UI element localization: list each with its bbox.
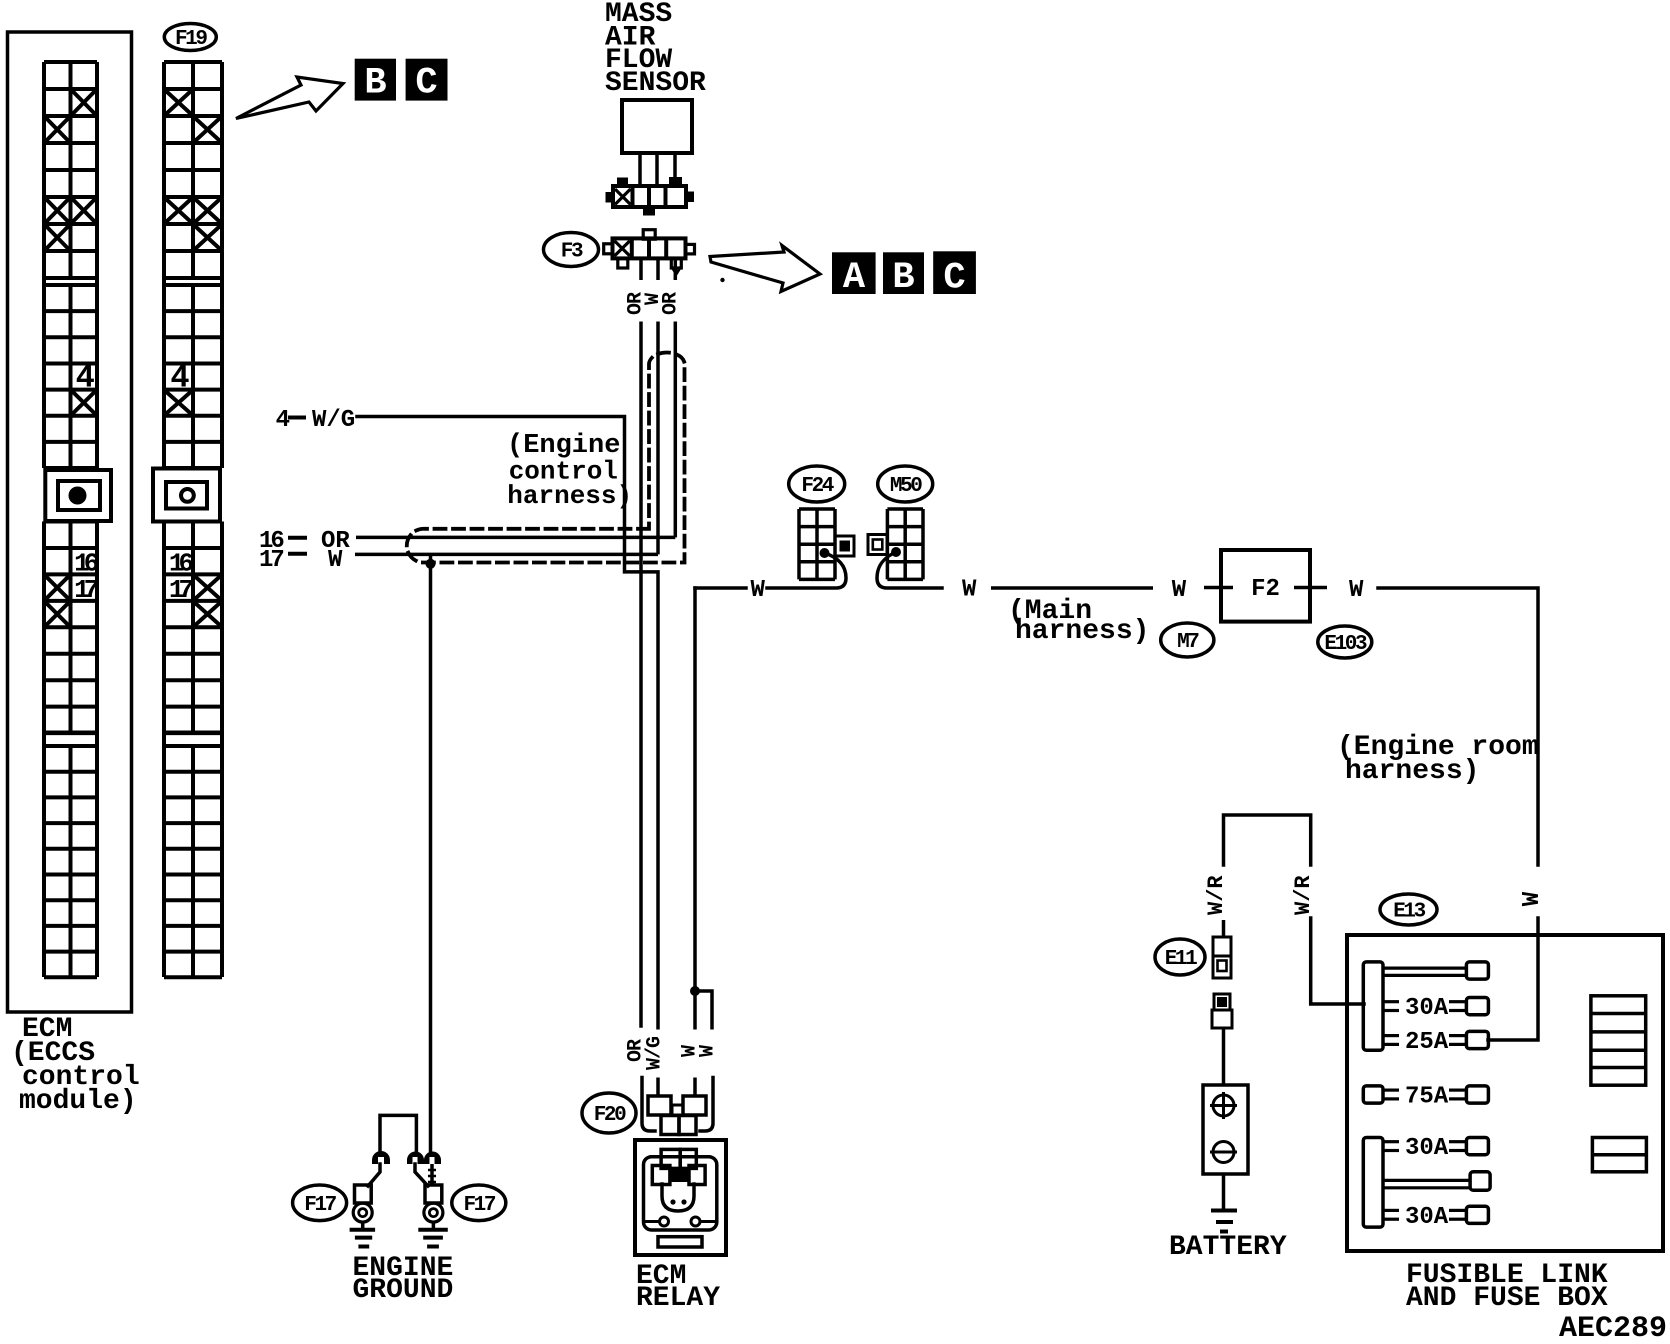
fusible link row (thick) (1383, 1179, 1470, 1182)
arrow to view B C (236, 77, 343, 119)
svg-text:OR: OR (660, 292, 683, 315)
wire branch to engine ground (429, 554, 433, 1152)
svg-text:4: 4 (76, 360, 95, 397)
wire W/R to fuse box (1311, 918, 1364, 1004)
connector label M7 (1161, 623, 1214, 657)
ECM (ECCS control module) outer box (8, 32, 132, 1012)
wire W down to relay (693, 588, 697, 1028)
svg-text:25A: 25A (1405, 1029, 1449, 1056)
view marker B (black box) (883, 252, 924, 294)
fusible link and fuse box outline (1347, 935, 1663, 1251)
spare fuse stack (2) (1592, 1138, 1646, 1172)
connector label F19 (164, 24, 216, 52)
svg-text:AND FUSE BOX: AND FUSE BOX (1406, 1283, 1608, 1314)
connector label E11 (1155, 939, 1205, 975)
svg-text:F24: F24 (801, 475, 833, 498)
battery ground (1211, 1174, 1237, 1232)
svg-text:harness): harness) (1345, 756, 1479, 787)
sensor leads (638, 153, 642, 186)
svg-text:F2: F2 (1251, 576, 1280, 603)
ECM relay box (635, 1140, 726, 1255)
wire W/G from pin4 (357, 417, 658, 1028)
wire W from ECM relay to F24 (695, 586, 746, 590)
svg-text:E11: E11 (1165, 948, 1197, 971)
connector label M50 (878, 466, 933, 502)
svg-text:M7: M7 (1177, 631, 1199, 654)
ground lead (415, 1164, 428, 1186)
mass air flow sensor box (622, 100, 692, 153)
svg-text:F17: F17 (463, 1194, 495, 1217)
svg-text:F17: F17 (304, 1194, 336, 1217)
connector M50 grid (868, 509, 923, 579)
svg-text:75A: 75A (1405, 1084, 1449, 1111)
svg-text:RELAY: RELAY (636, 1283, 720, 1314)
connector label E103 (1318, 626, 1372, 658)
fuse 30A (1383, 1209, 1399, 1212)
wire W branch (695, 991, 712, 1028)
wire OR (left, F3 pin to ECM relay) (639, 322, 643, 1028)
F19 strip keying symbol (hollow circle) (153, 469, 220, 522)
svg-text:SENSOR: SENSOR (605, 68, 706, 99)
svg-text:E13: E13 (1393, 901, 1425, 924)
stray dot (720, 278, 724, 282)
wire OR (right, F3 to pin 16) (674, 322, 678, 538)
svg-text:A: A (843, 257, 866, 299)
svg-text:F20: F20 (594, 1104, 626, 1127)
connector label F20 (582, 1093, 636, 1133)
svg-text:W/R: W/R (1204, 875, 1229, 915)
junction dot (426, 559, 436, 569)
svg-text:W/G: W/G (312, 407, 355, 434)
ground symbol right (418, 1230, 448, 1247)
svg-text:W: W (697, 1045, 720, 1057)
svg-text:4: 4 (276, 407, 290, 434)
fusible link F2 box (1221, 550, 1310, 622)
ECM strip keying symbol (filled dot) (45, 470, 111, 521)
svg-text:W/G: W/G (644, 1036, 667, 1070)
fuse 75A (1363, 1086, 1383, 1103)
wire into F24 (767, 553, 846, 588)
svg-text:W: W (1519, 891, 1546, 906)
battery (1203, 1085, 1248, 1174)
wire W pin17 (355, 553, 658, 557)
connector label F24 (789, 466, 845, 502)
connector label F17 (452, 1185, 506, 1221)
connector strip F19 pin grid (164, 62, 222, 977)
ring terminal right (424, 1185, 443, 1229)
svg-text:harness): harness) (507, 481, 632, 511)
fusible link row (thick) (1383, 966, 1468, 969)
svg-text:BATTERY: BATTERY (1169, 1232, 1287, 1263)
crimp terminal (372, 1151, 390, 1164)
connector label E13 (1380, 894, 1437, 925)
svg-text:4: 4 (170, 360, 189, 397)
view marker B (black box) (355, 59, 396, 101)
svg-text:W: W (328, 547, 343, 574)
spare fuse stack (5) (1591, 996, 1646, 1085)
wire to battery (1222, 1028, 1226, 1085)
ring terminal left (353, 1185, 372, 1229)
view marker C (black box) (933, 251, 976, 294)
connector F20 (642, 1078, 713, 1135)
svg-text:module): module) (19, 1086, 137, 1117)
svg-text:AEC289: AEC289 (1559, 1312, 1667, 1344)
ECM relay internals (644, 1149, 717, 1247)
connector label F17 (293, 1185, 347, 1221)
fuse 25A (1383, 1034, 1399, 1037)
ground lead (430, 1164, 434, 1186)
connector F3 (harness half) (604, 230, 695, 274)
svg-text:W/R: W/R (1291, 875, 1316, 915)
connector strip ECM side pin grid (44, 62, 99, 977)
view marker A (black box) (832, 252, 876, 294)
junction dot (690, 986, 700, 996)
F3 lead stubs (639, 259, 643, 281)
inline connector pair at E11 (1213, 937, 1231, 978)
svg-text:30A: 30A (1405, 1204, 1449, 1231)
svg-text:GROUND: GROUND (353, 1275, 454, 1306)
fuse 30A (1383, 1000, 1399, 1003)
svg-text:M50: M50 (890, 475, 922, 498)
inline connector pair lower (1212, 994, 1232, 1028)
svg-text:B: B (892, 257, 914, 299)
svg-text:F19: F19 (175, 28, 207, 51)
svg-text:C: C (415, 63, 437, 105)
connector F24 grid (799, 509, 854, 579)
svg-text:B: B (364, 63, 386, 105)
fuse bus bar upper (1363, 962, 1383, 1050)
svg-text:E103: E103 (1324, 633, 1367, 656)
arrow to view A B C (710, 246, 820, 292)
crimp terminal (424, 1152, 441, 1164)
svg-text:W: W (962, 577, 977, 604)
crimp terminal (407, 1152, 424, 1164)
wire OR pin16 (356, 536, 675, 540)
ground symbol left (350, 1230, 376, 1247)
connector label F3 (544, 233, 599, 267)
svg-text:W: W (1172, 577, 1187, 604)
svg-text:30A: 30A (1405, 1135, 1449, 1162)
wire W/R to E11 (1222, 920, 1226, 937)
fuse 30A (1383, 1140, 1399, 1143)
wire W from M50 to F2 (877, 552, 942, 588)
svg-text:W: W (1349, 577, 1364, 604)
svg-text:30A: 30A (1405, 995, 1449, 1022)
svg-text:17: 17 (259, 547, 283, 574)
view marker C (black box) (406, 59, 448, 101)
sensor connector (male half) (606, 177, 695, 216)
engine control harness dashed outline (407, 353, 685, 563)
engine ground bracket wire (380, 1115, 416, 1151)
wire W from F2 to fuse box (1378, 588, 1538, 865)
fuse bus bar lower (1363, 1138, 1383, 1228)
ground lead left (368, 1164, 380, 1186)
svg-text:F3: F3 (561, 241, 583, 264)
wire W/R bracket (1224, 815, 1311, 865)
svg-text:C: C (943, 258, 965, 300)
svg-text:harness): harness) (1015, 616, 1149, 647)
svg-text:W: W (751, 577, 766, 604)
wire W (middle, F3 to pin 17) (656, 322, 660, 555)
